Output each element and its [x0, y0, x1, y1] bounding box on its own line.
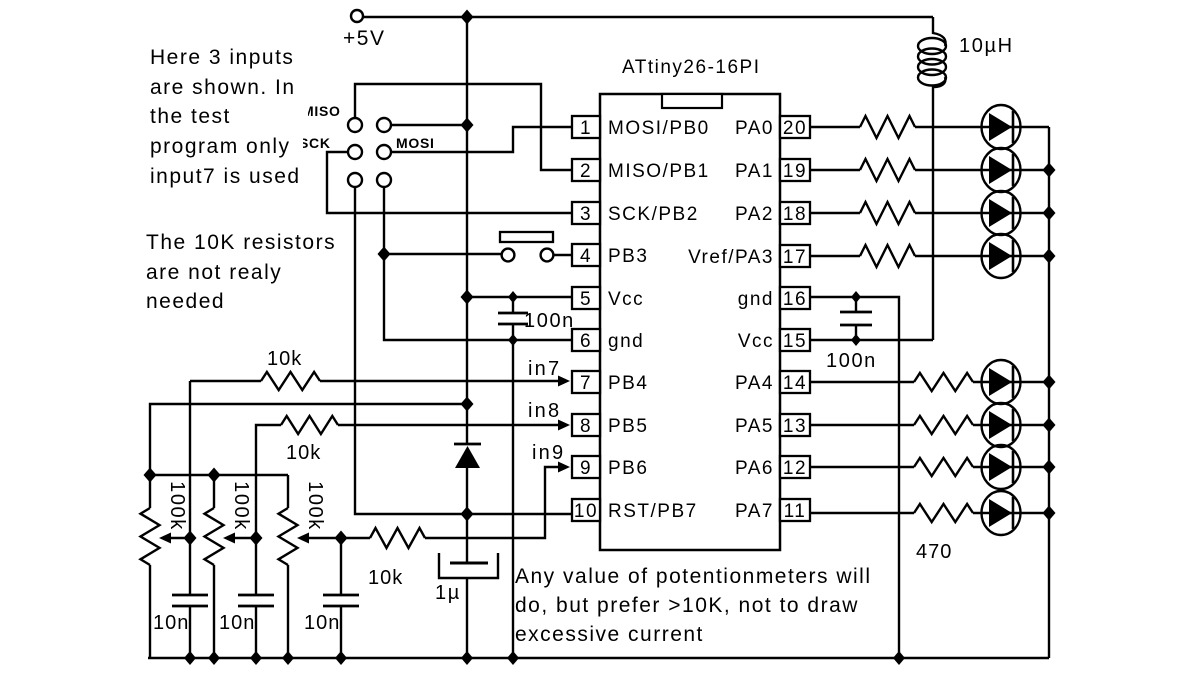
svg-text:6: 6: [580, 331, 592, 352]
note text: The 10K resistors: [146, 231, 336, 313]
diode D1 (RST to +5V): [454, 443, 481, 446]
svg-text:100k: 100k: [230, 481, 252, 531]
wire pin 5 Vcc: [467, 296, 572, 298]
svg-text:MOSI: MOSI: [396, 135, 435, 151]
junction bus row PA6: [1043, 460, 1056, 475]
arrow into pin 8: [558, 420, 570, 431]
svg-text:PA4: PA4: [735, 373, 774, 394]
junction bottom rail x=190: [184, 651, 196, 665]
wire in8: [256, 425, 562, 538]
wire pot top rail: [150, 474, 288, 476]
svg-text:in7: in7: [528, 358, 561, 380]
pin 7 box (PB4): [572, 371, 600, 393]
wire gnd vertical to bottom rail: [512, 340, 514, 658]
junction bottom rail x=256: [250, 651, 262, 665]
svg-text:10k: 10k: [368, 567, 403, 589]
svg-text:PA7: PA7: [735, 501, 774, 522]
svg-text:PA6: PA6: [735, 458, 774, 479]
svg-text:470: 470: [916, 541, 952, 563]
junction gnd/button node: [378, 247, 391, 262]
junction bus row PA1: [1043, 163, 1056, 178]
pin 3 box (SCK/PB2): [572, 202, 600, 224]
wire +5V vertical rail: [466, 17, 468, 444]
svg-text:PB5: PB5: [608, 416, 648, 437]
LED5: [982, 360, 1021, 404]
resistor R2 470: [860, 159, 915, 181]
pin 14 box (PA4): [780, 371, 810, 393]
svg-text:the test: the test: [150, 105, 231, 128]
LED8: [982, 491, 1021, 535]
wiper arrow P3: [297, 533, 309, 544]
pushbutton S1 contact left: [502, 249, 515, 262]
wiper arrow P2: [223, 533, 235, 544]
connector J1 pin RST (bot-left): [348, 173, 362, 187]
junction bus row PA5: [1043, 418, 1056, 433]
svg-text:ATtiny26-16PI: ATtiny26-16PI: [622, 57, 760, 78]
LED4: [982, 234, 1021, 278]
resistor R7 470: [914, 458, 973, 476]
wire MOSI net: connector to pin 1: [391, 127, 572, 152]
capacitor C6 100n right: [855, 297, 857, 340]
note text: Any value of potentionmeters: [515, 565, 872, 646]
svg-text:SCK/PB2: SCK/PB2: [608, 204, 699, 225]
svg-text:10n: 10n: [153, 612, 189, 634]
svg-text:10µH: 10µH: [959, 35, 1014, 57]
svg-text:Any value of potentionmeters w: Any value of potentionmeters will: [515, 565, 872, 588]
connector J1 pin MISO (top-left): [348, 118, 362, 132]
svg-text:7: 7: [580, 373, 592, 394]
svg-text:MISO/PB1: MISO/PB1: [608, 161, 710, 182]
svg-text:13: 13: [783, 416, 807, 437]
potentiometer P3 100k body: [287, 475, 289, 508]
IC U1 notch: [662, 94, 722, 108]
pin 11 box (PA7): [780, 499, 810, 521]
arrow into pin 9: [558, 462, 570, 473]
junction bus row PA7: [1043, 506, 1056, 521]
junction +5V rail / +5V vertical: [461, 10, 474, 25]
svg-text:SCK: SCK: [299, 135, 331, 151]
wire PA7 row: [810, 512, 1049, 514]
svg-text:gnd: gnd: [738, 289, 774, 310]
pin 6 box (gnd): [572, 329, 600, 351]
svg-text:17: 17: [783, 247, 807, 268]
pin 10 box (RST/PB7): [572, 499, 600, 521]
junction bottom rail x=467: [461, 651, 473, 665]
pin 1 box (MOSI/PB0): [572, 116, 600, 138]
svg-text:Vref/PA3: Vref/PA3: [688, 247, 774, 268]
wire in9: [341, 467, 562, 538]
svg-text:10n: 10n: [219, 612, 255, 634]
svg-text:14: 14: [783, 373, 807, 394]
wiper arrow P1: [159, 533, 171, 544]
connector J1 pin +5V (top-right): [377, 118, 391, 132]
pin 8 box (PB5): [572, 414, 600, 436]
wire +5V top rail: [363, 16, 933, 18]
wire button left lead: [384, 253, 501, 255]
svg-text:PA1: PA1: [735, 161, 774, 182]
pin 20 box (PA0): [780, 116, 810, 138]
pin 15 box (Vcc): [780, 329, 810, 351]
arrow into pin 7: [558, 376, 570, 387]
svg-text:10k: 10k: [267, 348, 302, 370]
wire pin 15 Vcc to inductor: [810, 339, 933, 341]
svg-text:100k: 100k: [166, 481, 188, 531]
svg-text:16: 16: [783, 289, 807, 310]
svg-text:needed: needed: [146, 290, 225, 313]
pin 18 box (PA2): [780, 202, 810, 224]
svg-text:gnd: gnd: [608, 331, 644, 352]
junction bottom rail x=341: [335, 651, 347, 665]
wire PA6 row: [810, 466, 1049, 468]
junction bottom rail x=899: [893, 651, 905, 665]
wire RST net: connector to pin 10: [355, 187, 572, 514]
svg-text:10: 10: [574, 501, 598, 522]
wire right LED bus: [1048, 127, 1050, 658]
svg-text:Here 3 inputs: Here 3 inputs: [150, 46, 294, 69]
pushbutton S1 contact right: [541, 249, 554, 262]
pin 4 box (PB3): [572, 244, 600, 266]
svg-text:are not realy: are not realy: [146, 261, 282, 284]
svg-text:do, but prefer >10K, not to dr: do, but prefer >10K, not to draw: [515, 594, 859, 617]
junction Vcc tap: [461, 290, 474, 305]
svg-text:100k: 100k: [304, 481, 326, 531]
junction wiper P2: [250, 531, 263, 546]
svg-text:are shown. In: are shown. In: [150, 76, 296, 99]
note text: Here 3 inputs: [150, 46, 301, 188]
pin 5 box (Vcc): [572, 287, 600, 309]
capacitor C4 1u (electrolytic): [450, 562, 488, 565]
wire bottom ground rail: [148, 657, 1049, 659]
potentiometer P2 100k body: [213, 475, 215, 508]
svg-text:Vcc: Vcc: [738, 331, 774, 352]
pushbutton S1 actuator bar: [500, 232, 553, 242]
wire connector +5V pin to rail: [391, 124, 467, 126]
resistor R11 10k (in9): [370, 528, 425, 548]
svg-text:The 10K resistors: The 10K resistors: [146, 231, 336, 254]
wire pot1 wiper riser to in7: [189, 381, 191, 538]
wire diode to RST node: [466, 468, 468, 563]
resistor R6 470: [914, 416, 973, 434]
wire PA5 row: [810, 424, 1049, 426]
svg-text:3: 3: [580, 204, 592, 225]
svg-text:15: 15: [783, 331, 807, 352]
svg-text:PB4: PB4: [608, 373, 648, 394]
LED6: [982, 403, 1021, 447]
junction pot1 top: [144, 468, 157, 483]
svg-text:in8: in8: [528, 400, 561, 422]
svg-text:4: 4: [580, 246, 592, 267]
pin 19 box (PA1): [780, 159, 810, 181]
svg-text:19: 19: [783, 161, 807, 182]
svg-text:8: 8: [580, 416, 592, 437]
junction +5V vertical at connector: [461, 118, 474, 133]
junction feed on +5V rail: [461, 397, 474, 412]
wire PA0 row: [810, 126, 1049, 128]
svg-text:18: 18: [783, 204, 807, 225]
pin 17 box (Vref/PA3): [780, 245, 810, 267]
resistor R1 470: [860, 116, 915, 138]
junction bus row PA4: [1043, 375, 1056, 390]
LED7: [982, 445, 1021, 489]
svg-text:10n: 10n: [304, 612, 340, 634]
connector J1 pin GND (bot-right): [377, 173, 391, 187]
junction wiper P3: [335, 531, 348, 546]
pin 9 box (PB6): [572, 456, 600, 478]
svg-text:PA5: PA5: [735, 416, 774, 437]
potentiometer P1 100k body: [149, 475, 151, 508]
resistor R10 10k (in8): [281, 416, 338, 434]
svg-text:excessive current: excessive current: [515, 623, 704, 646]
svg-text:Vcc: Vcc: [608, 289, 644, 310]
LED2: [982, 148, 1021, 192]
svg-text:12: 12: [783, 458, 807, 479]
svg-text:20: 20: [783, 118, 807, 139]
wire PA1 row: [810, 169, 1049, 171]
wire button to pin 4: [554, 254, 572, 256]
inductor L1 10uH: [933, 17, 946, 46]
svg-text:100n: 100n: [524, 310, 575, 332]
resistor R5 470: [914, 373, 973, 391]
node +5V terminal: [351, 10, 363, 22]
svg-text:1µ: 1µ: [435, 582, 461, 604]
resistor R9 10k (in7): [261, 372, 320, 390]
wire GND net: connector to pin 6: [384, 187, 572, 340]
resistor R3 470: [860, 202, 915, 224]
svg-text:9: 9: [580, 458, 592, 479]
capacitor C5 100n: [512, 297, 514, 340]
capacitor C2 10n: [255, 538, 257, 658]
wire potentiometer +5V feed: [150, 404, 467, 475]
svg-text:input7 is used: input7 is used: [150, 165, 301, 188]
junction bottom rail x=214: [208, 651, 220, 665]
wire C4 to bottom rail: [466, 578, 468, 658]
wire in7: [190, 380, 562, 382]
pin 2 box (MISO/PB1): [572, 159, 600, 181]
svg-text:5: 5: [580, 289, 592, 310]
svg-text:MOSI/PB0: MOSI/PB0: [608, 118, 710, 139]
resistor R8 470: [914, 504, 973, 522]
wire SCK net: connector to pin 3: [327, 152, 572, 213]
svg-text:PB3: PB3: [608, 246, 648, 267]
svg-text:10k: 10k: [286, 442, 321, 464]
svg-text:in9: in9: [532, 442, 565, 464]
svg-text:RST/PB7: RST/PB7: [608, 501, 698, 522]
svg-text:2: 2: [580, 161, 592, 182]
junction bottom rail x=288: [282, 651, 294, 665]
wire PA2 row: [810, 212, 1049, 214]
svg-text:1: 1: [580, 118, 592, 139]
svg-text:11: 11: [784, 501, 807, 522]
junction pot2 top: [208, 468, 221, 483]
svg-text:PB6: PB6: [608, 458, 648, 479]
svg-text:PA2: PA2: [735, 204, 774, 225]
pin 16 box (gnd): [780, 287, 810, 309]
junction wiper P1: [184, 531, 197, 546]
op IC U1 ATtiny26-16PI body: [600, 94, 780, 550]
capacitor C1 10n: [189, 538, 191, 658]
junction bus row PA3: [1043, 249, 1056, 264]
pin 13 box (PA5): [780, 414, 810, 436]
wire PA4 row: [810, 381, 1049, 383]
junction bus row PA2: [1043, 206, 1056, 221]
svg-text:PA0: PA0: [735, 118, 774, 139]
svg-text:program only: program only: [150, 135, 291, 158]
svg-text:100n: 100n: [826, 350, 877, 372]
connector J1 pin SCK (mid-left): [348, 145, 362, 159]
svg-text:+5V: +5V: [343, 27, 385, 50]
capacitor C3 10n: [340, 538, 342, 658]
resistor R4 470: [860, 245, 915, 267]
LED1: [982, 105, 1021, 149]
wire pin 16 gnd to bottom rail: [810, 297, 899, 658]
junction RST wire: [461, 507, 474, 522]
wire MISO net: connector to pin 2: [355, 84, 572, 170]
pin 12 box (PA6): [780, 456, 810, 478]
junction bottom rail x=513: [507, 651, 519, 665]
wire PA3 row: [810, 255, 1049, 257]
LED3: [982, 191, 1021, 235]
connector J1 pin MOSI (mid-right): [377, 145, 391, 159]
